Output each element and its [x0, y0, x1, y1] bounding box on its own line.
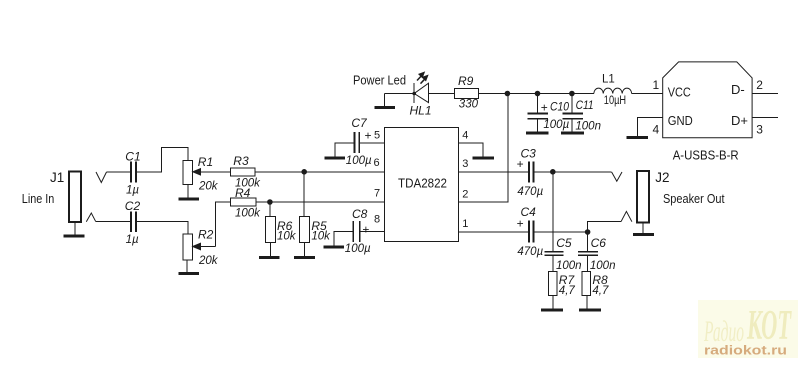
Vcc rail wire R9 to L1	[479, 93, 594, 95]
svg-text:10µH: 10µH	[604, 95, 626, 107]
wire C8 to ground	[334, 232, 352, 246]
wire J1 ring to C2	[96, 221, 130, 223]
junction node rail/C10	[535, 91, 541, 97]
svg-text:+: +	[541, 100, 548, 114]
R5 ground	[294, 242, 315, 257]
junction node R3/R5	[301, 169, 307, 175]
wire junction to J2 ring	[588, 222, 621, 232]
junction node rail/C11	[569, 91, 575, 97]
capacitor C7	[354, 132, 359, 153]
J1 ground	[64, 222, 85, 236]
svg-text:TDA2822: TDA2822	[398, 176, 447, 191]
connector J1	[69, 172, 81, 222]
svg-text:VCC: VCC	[668, 85, 691, 100]
connector J2	[637, 171, 649, 222]
capacitor C2	[131, 211, 136, 232]
svg-text:4: 4	[653, 123, 660, 137]
R7 ground	[541, 296, 563, 311]
capacitor C8	[353, 221, 360, 242]
resistor R5	[299, 217, 309, 243]
wire pin2 to Vcc rail	[459, 94, 508, 203]
svg-text:+: +	[517, 157, 524, 171]
svg-text:1: 1	[462, 218, 468, 230]
svg-text:J2: J2	[655, 170, 669, 185]
svg-text:100µ: 100µ	[345, 243, 371, 255]
potentiometer R2	[183, 234, 193, 260]
svg-text:radiokot.ru: radiokot.ru	[704, 344, 787, 358]
svg-text:10k: 10k	[311, 231, 331, 243]
wire J1 tip to C1	[107, 171, 131, 173]
svg-text:GND: GND	[668, 113, 693, 128]
svg-text:6: 6	[374, 157, 380, 169]
resistor R8	[582, 272, 591, 296]
wire D+	[752, 117, 778, 119]
resistor R9	[454, 89, 478, 99]
LED HL1	[412, 72, 428, 103]
svg-text:КОТ: КОТ	[746, 303, 792, 349]
svg-text:4,7: 4,7	[592, 285, 609, 297]
C10 ground	[526, 132, 549, 135]
svg-text:L1: L1	[602, 74, 615, 86]
svg-text:20k: 20k	[198, 255, 219, 267]
svg-text:4,7: 4,7	[559, 285, 576, 297]
J2 tip contact	[612, 172, 622, 181]
svg-text:1µ: 1µ	[126, 185, 139, 197]
watermark Radio KOT	[698, 300, 798, 358]
svg-text:R1: R1	[198, 155, 213, 169]
svg-text:R2: R2	[198, 227, 214, 241]
svg-text:C2: C2	[125, 199, 141, 213]
capacitor C11	[563, 94, 584, 133]
wire C2 to R2 top	[137, 222, 188, 235]
resistor R7	[548, 272, 557, 296]
svg-text:20k: 20k	[198, 181, 219, 193]
junction node rail/pin2	[505, 91, 511, 97]
J1 ring contact (bottom)	[86, 213, 96, 222]
svg-text:C8: C8	[352, 207, 368, 221]
junction node C4/C6	[585, 229, 591, 235]
svg-text:A-USBS-B-R: A-USBS-B-R	[673, 149, 739, 163]
svg-text:2: 2	[462, 189, 468, 201]
R1 wiper arrow	[193, 169, 231, 175]
C11 ground	[561, 132, 584, 135]
R6 ground	[259, 242, 280, 257]
svg-text:5: 5	[374, 130, 380, 142]
wire R4 to pin7	[256, 201, 384, 203]
svg-text:Line In: Line In	[22, 191, 55, 206]
svg-text:C1: C1	[125, 150, 140, 164]
wire L1 to VCC pin	[632, 93, 663, 95]
svg-text:D-: D-	[731, 82, 745, 97]
svg-text:HL1: HL1	[410, 104, 432, 118]
wire C6 to R8	[587, 255, 589, 271]
wire GND pin4	[638, 118, 663, 138]
wire LED to R9	[429, 93, 455, 95]
J2 ring contact	[621, 211, 632, 221]
svg-text:R9: R9	[458, 74, 474, 88]
wire C1 to R1 top	[137, 148, 188, 172]
svg-text:100n: 100n	[556, 260, 582, 272]
capacitor C5	[544, 252, 563, 256]
svg-text:C5: C5	[556, 236, 572, 250]
J2 ground	[633, 222, 654, 234]
svg-text:330: 330	[459, 99, 479, 111]
wire LED ground to LED	[385, 93, 415, 95]
svg-text:3: 3	[462, 158, 468, 170]
op-amp IC U1 TDA2822	[384, 127, 458, 241]
capacitor C6	[578, 252, 598, 256]
capacitor C1	[131, 162, 136, 183]
wire pin1 to C4	[459, 231, 529, 233]
wire pin8 to C8	[361, 231, 385, 233]
svg-text:4: 4	[462, 130, 468, 142]
capacitor C3	[529, 162, 533, 183]
wire D-	[752, 93, 778, 95]
capacitor C4	[529, 220, 533, 242]
svg-text:1µ: 1µ	[126, 234, 139, 246]
wire C5 riser	[552, 172, 554, 252]
inductor L1	[594, 88, 632, 93]
ground for Power LED	[374, 94, 395, 108]
resistor R4	[230, 198, 256, 206]
junction node C3/C5	[550, 169, 556, 175]
svg-text:R3: R3	[233, 154, 249, 168]
svg-text:Speaker Out: Speaker Out	[663, 191, 725, 206]
R2 wiper arrow	[193, 243, 216, 249]
C8 ground	[323, 246, 344, 249]
pin4 ground	[473, 157, 494, 160]
svg-text:D+: D+	[731, 113, 748, 128]
svg-text:J1: J1	[50, 170, 64, 185]
svg-text:C6: C6	[591, 236, 607, 250]
wire pin3 to C3	[459, 171, 529, 173]
J1 tip contact (top)	[96, 172, 107, 183]
wire C5 to R7	[552, 255, 554, 271]
R1 ground	[179, 185, 200, 199]
potentiometer R1	[183, 161, 193, 185]
svg-text:7: 7	[374, 188, 380, 200]
svg-text:470µ: 470µ	[517, 246, 543, 258]
svg-text:470µ: 470µ	[517, 186, 543, 198]
USB pin4 ground	[627, 136, 649, 139]
svg-text:C10: C10	[550, 100, 569, 114]
svg-text:100n: 100n	[575, 121, 601, 133]
wire pin5 to C7	[360, 142, 384, 144]
svg-text:100µ: 100µ	[346, 155, 372, 167]
svg-text:+: +	[517, 217, 524, 231]
svg-text:Power Led: Power Led	[353, 74, 406, 88]
C7 ground	[324, 157, 345, 160]
svg-text:10k: 10k	[277, 231, 297, 243]
wire R3 to pin6	[255, 171, 384, 173]
junction node R4/R6	[267, 199, 273, 205]
svg-text:+: +	[362, 223, 369, 237]
svg-text:2: 2	[756, 78, 763, 92]
svg-text:100µ: 100µ	[543, 119, 569, 131]
wire R5 riser	[303, 172, 305, 217]
wire C7 to ground	[335, 143, 354, 157]
svg-text:R4: R4	[235, 186, 251, 200]
wire C6 riser	[587, 232, 589, 251]
resistor R6	[265, 217, 275, 243]
svg-text:100n: 100n	[590, 260, 616, 272]
wire pin4 to ground	[459, 143, 483, 157]
resistor R3	[230, 168, 255, 176]
R2 ground	[179, 260, 200, 274]
capacitor C10	[527, 94, 548, 133]
wire R6 riser	[269, 202, 271, 217]
wire C3 to J2 tip	[534, 171, 611, 173]
wire R2 wiper riser to R4	[216, 202, 231, 247]
svg-text:8: 8	[374, 214, 380, 226]
svg-text:C11: C11	[576, 98, 594, 112]
svg-text:100k: 100k	[235, 208, 261, 220]
svg-text:3: 3	[756, 123, 763, 137]
svg-text:1: 1	[653, 78, 660, 92]
R8 ground	[579, 296, 601, 311]
wire C4 to junction	[534, 231, 587, 233]
svg-text:+: +	[365, 129, 372, 143]
USB connector A-USBS-B-R	[663, 62, 752, 138]
svg-text:C7: C7	[351, 116, 368, 130]
